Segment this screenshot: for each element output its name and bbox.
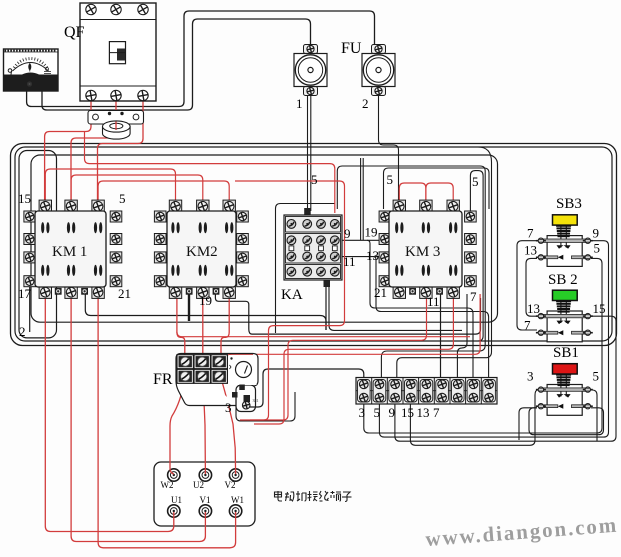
svg-text:KA: KA — [281, 287, 303, 303]
wire L2 through CT ring — [115, 122, 117, 131]
svg-text:5: 5 — [594, 240, 601, 255]
wire frame second loop — [15, 147, 612, 341]
svg-text:7: 7 — [470, 289, 477, 304]
wire col4 to SB1-3 — [410, 390, 538, 445]
svg-text:21: 21 — [118, 286, 131, 301]
svg-text:5: 5 — [311, 172, 318, 187]
svg-text:1: 1 — [296, 96, 303, 111]
wire loop node 2 — [19, 151, 57, 338]
wire KA net9 risers — [361, 158, 364, 240]
wire red KM3 jumper T1-T2 — [399, 183, 426, 204]
svg-text:15: 15 — [593, 301, 606, 316]
wire red KM1-KM2 ph3 — [98, 181, 229, 202]
svg-text:13: 13 — [366, 248, 379, 263]
wire FU1 to KA coil (double) — [307, 94, 309, 211]
ammeter — [4, 49, 59, 91]
wire KM3 aux1 to col6 — [440, 294, 442, 378]
wire L3 QF to KM1 T3 (red) — [98, 101, 144, 200]
wire red bus to KA — [85, 132, 335, 214]
wire red KA feed vertical — [235, 181, 345, 420]
wire SB1-5 drop — [591, 390, 597, 441]
wire red FR to motor W2 — [170, 378, 185, 474]
svg-text:KM 3: KM 3 — [405, 244, 440, 260]
wire loop under SB1 — [529, 408, 604, 435]
svg-text:U1: U1 — [171, 495, 182, 505]
contactor KM2 — [154, 200, 248, 299]
svg-text:15: 15 — [18, 191, 31, 206]
svg-text:5: 5 — [374, 405, 381, 420]
svg-text:7: 7 — [433, 405, 440, 420]
wire red KM1 bottom to motor W1 — [98, 294, 236, 548]
svg-text:W1: W1 — [231, 495, 244, 505]
motor terminal block — [154, 462, 255, 526]
wire net7 hook to col8 — [367, 240, 473, 378]
wire KM2 aux2 route — [215, 294, 480, 334]
contactor KM3 — [379, 200, 476, 299]
svg-text:381: 381 — [253, 398, 259, 403]
svg-text:19: 19 — [365, 225, 378, 240]
wire net7 SB3-SB2 — [517, 241, 537, 330]
current transformer ring — [103, 121, 131, 139]
wire bundle b1 to terminal col2 — [337, 166, 485, 378]
wire KM2 aux1 thick — [188, 294, 190, 321]
wire red KM2 bottom to FR 3 — [221, 294, 229, 358]
wire KM1 aux loop — [85, 294, 326, 330]
wire KM1 pad down — [29, 287, 31, 332]
svg-text:11: 11 — [343, 254, 356, 269]
wire frame inner loop — [31, 155, 498, 322]
current transformer bracket — [88, 111, 144, 125]
wire red KM1-KM2 ph2 — [71, 175, 203, 202]
svg-text:SB1: SB1 — [553, 345, 579, 361]
svg-text:5: 5 — [119, 191, 126, 206]
svg-text:KM2: KM2 — [186, 244, 218, 260]
wire red KM3 bottom C — [225, 294, 481, 358]
svg-text:17: 17 — [18, 286, 32, 301]
wire L2 QF to KM1 T2 (red) — [71, 101, 116, 200]
wire KA bottom tail — [325, 287, 327, 330]
label motor terminal chinese text — [275, 491, 352, 502]
wire red KM3 bottom A — [250, 294, 427, 420]
pushbutton SB3 — [524, 196, 600, 266]
svg-text:13: 13 — [524, 242, 537, 257]
svg-text:SB3: SB3 — [556, 196, 582, 212]
svg-text:13: 13 — [417, 405, 430, 420]
svg-text:V1: V1 — [200, 495, 211, 505]
wire KA right 9 to KM3 — [339, 239, 381, 241]
svg-text:3: 3 — [225, 400, 232, 415]
wire loop 5 right of KM3 — [470, 171, 483, 341]
wire red KM1 bottom to motor U1 — [45, 294, 174, 532]
svg-text:21: 21 — [374, 285, 387, 300]
wire red KM3 jumper T2-T3 — [426, 183, 453, 204]
svg-text:W2: W2 — [161, 480, 174, 490]
wire L1 QF to KM1 T1 (red) — [45, 101, 91, 200]
wire net hook to col9 — [373, 257, 489, 378]
wire red FR to motor V2 — [221, 378, 236, 474]
wire ammeter to FU2 — [27, 11, 375, 107]
svg-text:15: 15 — [401, 405, 414, 420]
contactor KM1 — [24, 200, 122, 299]
svg-text:9: 9 — [344, 226, 351, 241]
fuse FU1 — [294, 44, 327, 96]
svg-text:SB 2: SB 2 — [548, 272, 578, 288]
wire col3 to SB2-15 — [395, 316, 616, 441]
wire KM3 aux2 to col7 — [457, 294, 467, 378]
wire red KM2 bottom to FR 1 — [177, 294, 185, 358]
wire red branch net D — [177, 332, 470, 337]
svg-text:11: 11 — [427, 294, 440, 309]
svg-text:3: 3 — [527, 369, 534, 384]
wire loop 5 over KM3 — [384, 168, 490, 209]
pushbutton SB1 — [527, 345, 599, 415]
terminal strip TB — [356, 378, 497, 405]
wire KA right 11 to KM3 — [339, 256, 381, 258]
wire FR aux2 down — [236, 392, 295, 421]
wire FR aux to col1 top — [246, 369, 364, 407]
relay KA — [284, 208, 342, 287]
svg-text:5: 5 — [472, 174, 479, 189]
svg-text:9: 9 — [593, 226, 600, 241]
svg-text:7: 7 — [524, 318, 531, 333]
svg-text:2: 2 — [362, 96, 369, 111]
svg-text:5: 5 — [387, 172, 394, 187]
wire FU2 down — [379, 93, 399, 204]
svg-text:3: 3 — [359, 405, 366, 420]
pushbutton SB2 — [524, 272, 606, 342]
svg-text:5: 5 — [593, 369, 600, 384]
svg-text:FR: FR — [153, 371, 173, 388]
wire red KM3 bottom B — [254, 294, 453, 424]
thermal relay FR — [176, 354, 259, 412]
svg-text:FU: FU — [341, 40, 362, 57]
fuse FU2 — [362, 44, 395, 96]
wire red KM2 bottom to FR 2 — [202, 294, 204, 358]
svg-text:2: 2 — [19, 324, 26, 339]
svg-text:V2: V2 — [225, 480, 236, 490]
wire red FR to motor U2 — [203, 378, 206, 474]
wire col1 to SB3-5 — [364, 258, 602, 433]
circuit breaker QF — [80, 3, 156, 103]
wire red KM1-KM2 ph1 — [45, 169, 175, 202]
svg-text:KM 1: KM 1 — [52, 244, 87, 260]
svg-text:QF: QF — [64, 24, 85, 41]
wire col2 to SB3-9 — [379, 241, 608, 437]
svg-text:7: 7 — [527, 226, 534, 241]
svg-text:9: 9 — [389, 405, 396, 420]
wire net13 SB3-SB2 — [526, 258, 537, 316]
wire KA left feed — [276, 204, 336, 334]
wire frame outer loop — [11, 144, 617, 346]
svg-text:13: 13 — [527, 301, 540, 316]
wire bundle b2 to terminal col3 — [397, 147, 492, 378]
wire ammeter to FU1 — [42, 19, 311, 110]
wire SB1 lower-left out — [519, 408, 537, 440]
svg-text:U2: U2 — [193, 480, 204, 490]
svg-text:19: 19 — [199, 293, 212, 308]
wire red KM1 bottom to motor V1 — [71, 294, 205, 542]
